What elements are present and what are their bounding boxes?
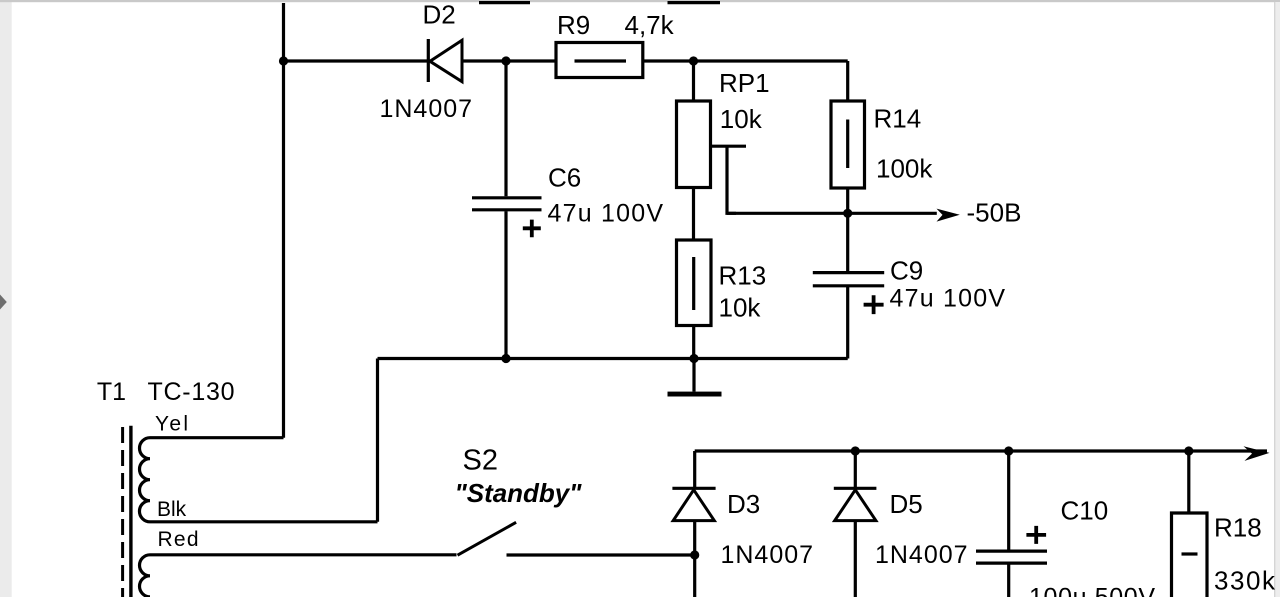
svg-text:D3: D3 [727,489,760,519]
svg-text:-50B: -50B [967,198,1022,228]
wire: main vertical from top to transformer Yel corner [282,3,285,438]
svg-text:C6: C6 [548,162,581,192]
transformer T1 core solid line [129,426,132,597]
junction dot at RP1 top [689,56,698,65]
wire: -50B rail horizontal [727,212,937,215]
svg-text:"Standby": "Standby" [455,478,583,508]
svg-text:100k: 100k [876,154,933,184]
wire: D3 branch vertical top [693,451,696,488]
svg-text:R18: R18 [1214,512,1262,542]
ground stem [692,359,695,392]
junction dot at R18 top [1184,446,1193,455]
svg-text:D5: D5 [890,489,923,519]
-50B arrowhead [937,209,960,222]
junction dot at C6 top [501,56,510,65]
resistor R13 body [677,240,712,326]
svg-text:TC-130: TC-130 [148,378,235,406]
diode D3 cathode bar [672,487,715,490]
capacitor C9 top plate [813,271,884,274]
top stub segment left (cut-off element) [479,1,530,4]
junction dot at R13/ground rail [689,354,698,363]
wire: R13 bottom to ground rail [692,326,695,359]
transformer T1 core dashed line [121,427,124,597]
top stub segment right (cut-off element) [668,1,721,4]
potentiometer RP1 body [677,101,711,188]
junction dot at vertical/D2 rail [279,56,288,65]
svg-text:Yel: Yel [155,412,188,435]
plus sign of C9 [864,295,884,314]
svg-text:1N4007: 1N4007 [875,541,968,569]
wire: D3 anode down past bottom [693,521,696,597]
diode D3 triangle [673,490,714,521]
wire: D5 anode down past bottom [854,521,857,597]
wire: RP1 bottom to R13 top [692,188,695,241]
plus sign of C6 [523,220,541,238]
wire: Blk terminal horizontal [150,520,378,523]
svg-text:S2: S2 [463,445,498,477]
plus sign of C10 [1026,526,1046,544]
svg-text:4,7k: 4,7k [625,10,675,40]
svg-text:R14: R14 [874,104,922,134]
sidebar toggle arrow [0,295,7,310]
resistor R9 inner dash [575,59,627,62]
svg-text:D2: D2 [423,0,456,30]
svg-text:RP1: RP1 [719,68,770,98]
wire: R14 bottom to -50B junction [846,188,849,213]
wire: bottom rail horizontal [378,357,848,360]
junction dot at R14/-50B [843,209,852,218]
wire: Red terminal horizontal [150,553,457,556]
junction dot at switch/D3 [690,550,699,559]
wire: junction down to C9 top plate [846,213,849,271]
capacitor C6 top plate [472,196,542,199]
resistor R18 inner dash [1182,552,1198,555]
resistor R13 inner dash [692,257,695,310]
capacitor C10 bottom plate [976,561,1047,564]
wire: R18 top drop [1187,451,1190,513]
ground bar [668,392,722,397]
resistor R14 body [831,101,865,188]
diode D2 triangle [430,40,462,81]
diode D2 cathode bar [427,39,430,82]
wire: R9 to R14 corner [643,59,848,62]
wire: C10 bottom down past edge [1007,565,1010,597]
wire: y61 rail from vertical to D2 [284,59,431,62]
resistor R9 body [556,43,643,78]
svg-text:C9: C9 [890,255,923,285]
svg-text:10k: 10k [719,293,762,323]
viewer left gutter [0,0,12,597]
svg-text:R9: R9 [557,10,590,40]
resistor R14 inner dash [846,120,849,169]
svg-text:C10: C10 [1061,496,1109,526]
transformer T1 winding Red (cut at bottom) [140,555,151,597]
svg-text:1N4007: 1N4007 [721,541,814,569]
switch S2 lever [458,522,517,555]
svg-text:1N4007: 1N4007 [380,95,473,123]
svg-text:100u 500V: 100u 500V [1029,584,1155,597]
output rail arrowhead [1244,446,1270,461]
wire: C6 top from y61 junction [504,61,507,196]
resistor R18 body (cut at bottom) [1172,513,1208,597]
svg-text:Red: Red [158,528,199,551]
wire: junction down to RP1 top [692,61,695,101]
wire: bottom rail drop to Blk wire [376,359,379,522]
viewer top border [0,0,1280,2]
wire: C6 bottom to bottom rail [504,211,507,358]
junction dot at C10 top [1004,446,1013,455]
wire: output rail y451 [695,449,1267,452]
wire: D2 to R9 [462,59,556,62]
svg-text:47u 100V: 47u 100V [548,200,664,228]
diode D5 cathode bar [834,487,877,490]
svg-text:47u 100V: 47u 100V [890,285,1006,313]
wire: wiper drop to -50B rail [727,146,736,213]
svg-text:10k: 10k [720,104,763,134]
wire: D5 branch vertical top [854,451,857,488]
wire: C9 bottom to bottom rail [846,287,849,359]
wire: corner down to R14 top [846,61,849,101]
svg-text:T1: T1 [97,378,126,406]
svg-text:R13: R13 [719,261,767,291]
diode D5 triangle [835,490,876,521]
svg-text:Blk: Blk [157,498,187,521]
wire: C10 top drop [1007,451,1010,550]
wire: switch to D3 junction [507,553,695,556]
viewer right gutter [1274,2,1280,597]
potentiometer RP1 wiper line [711,145,747,148]
transformer T1 winding Yel-Blk [139,438,150,522]
wire: Yel terminal horizontal [150,436,284,439]
capacitor C6 bottom plate [472,208,542,211]
junction dot at C6 bottom rail [501,354,510,363]
capacitor C9 bottom plate [813,284,884,287]
capacitor C10 top plate [976,549,1047,552]
junction dot at D5 top [851,446,860,455]
